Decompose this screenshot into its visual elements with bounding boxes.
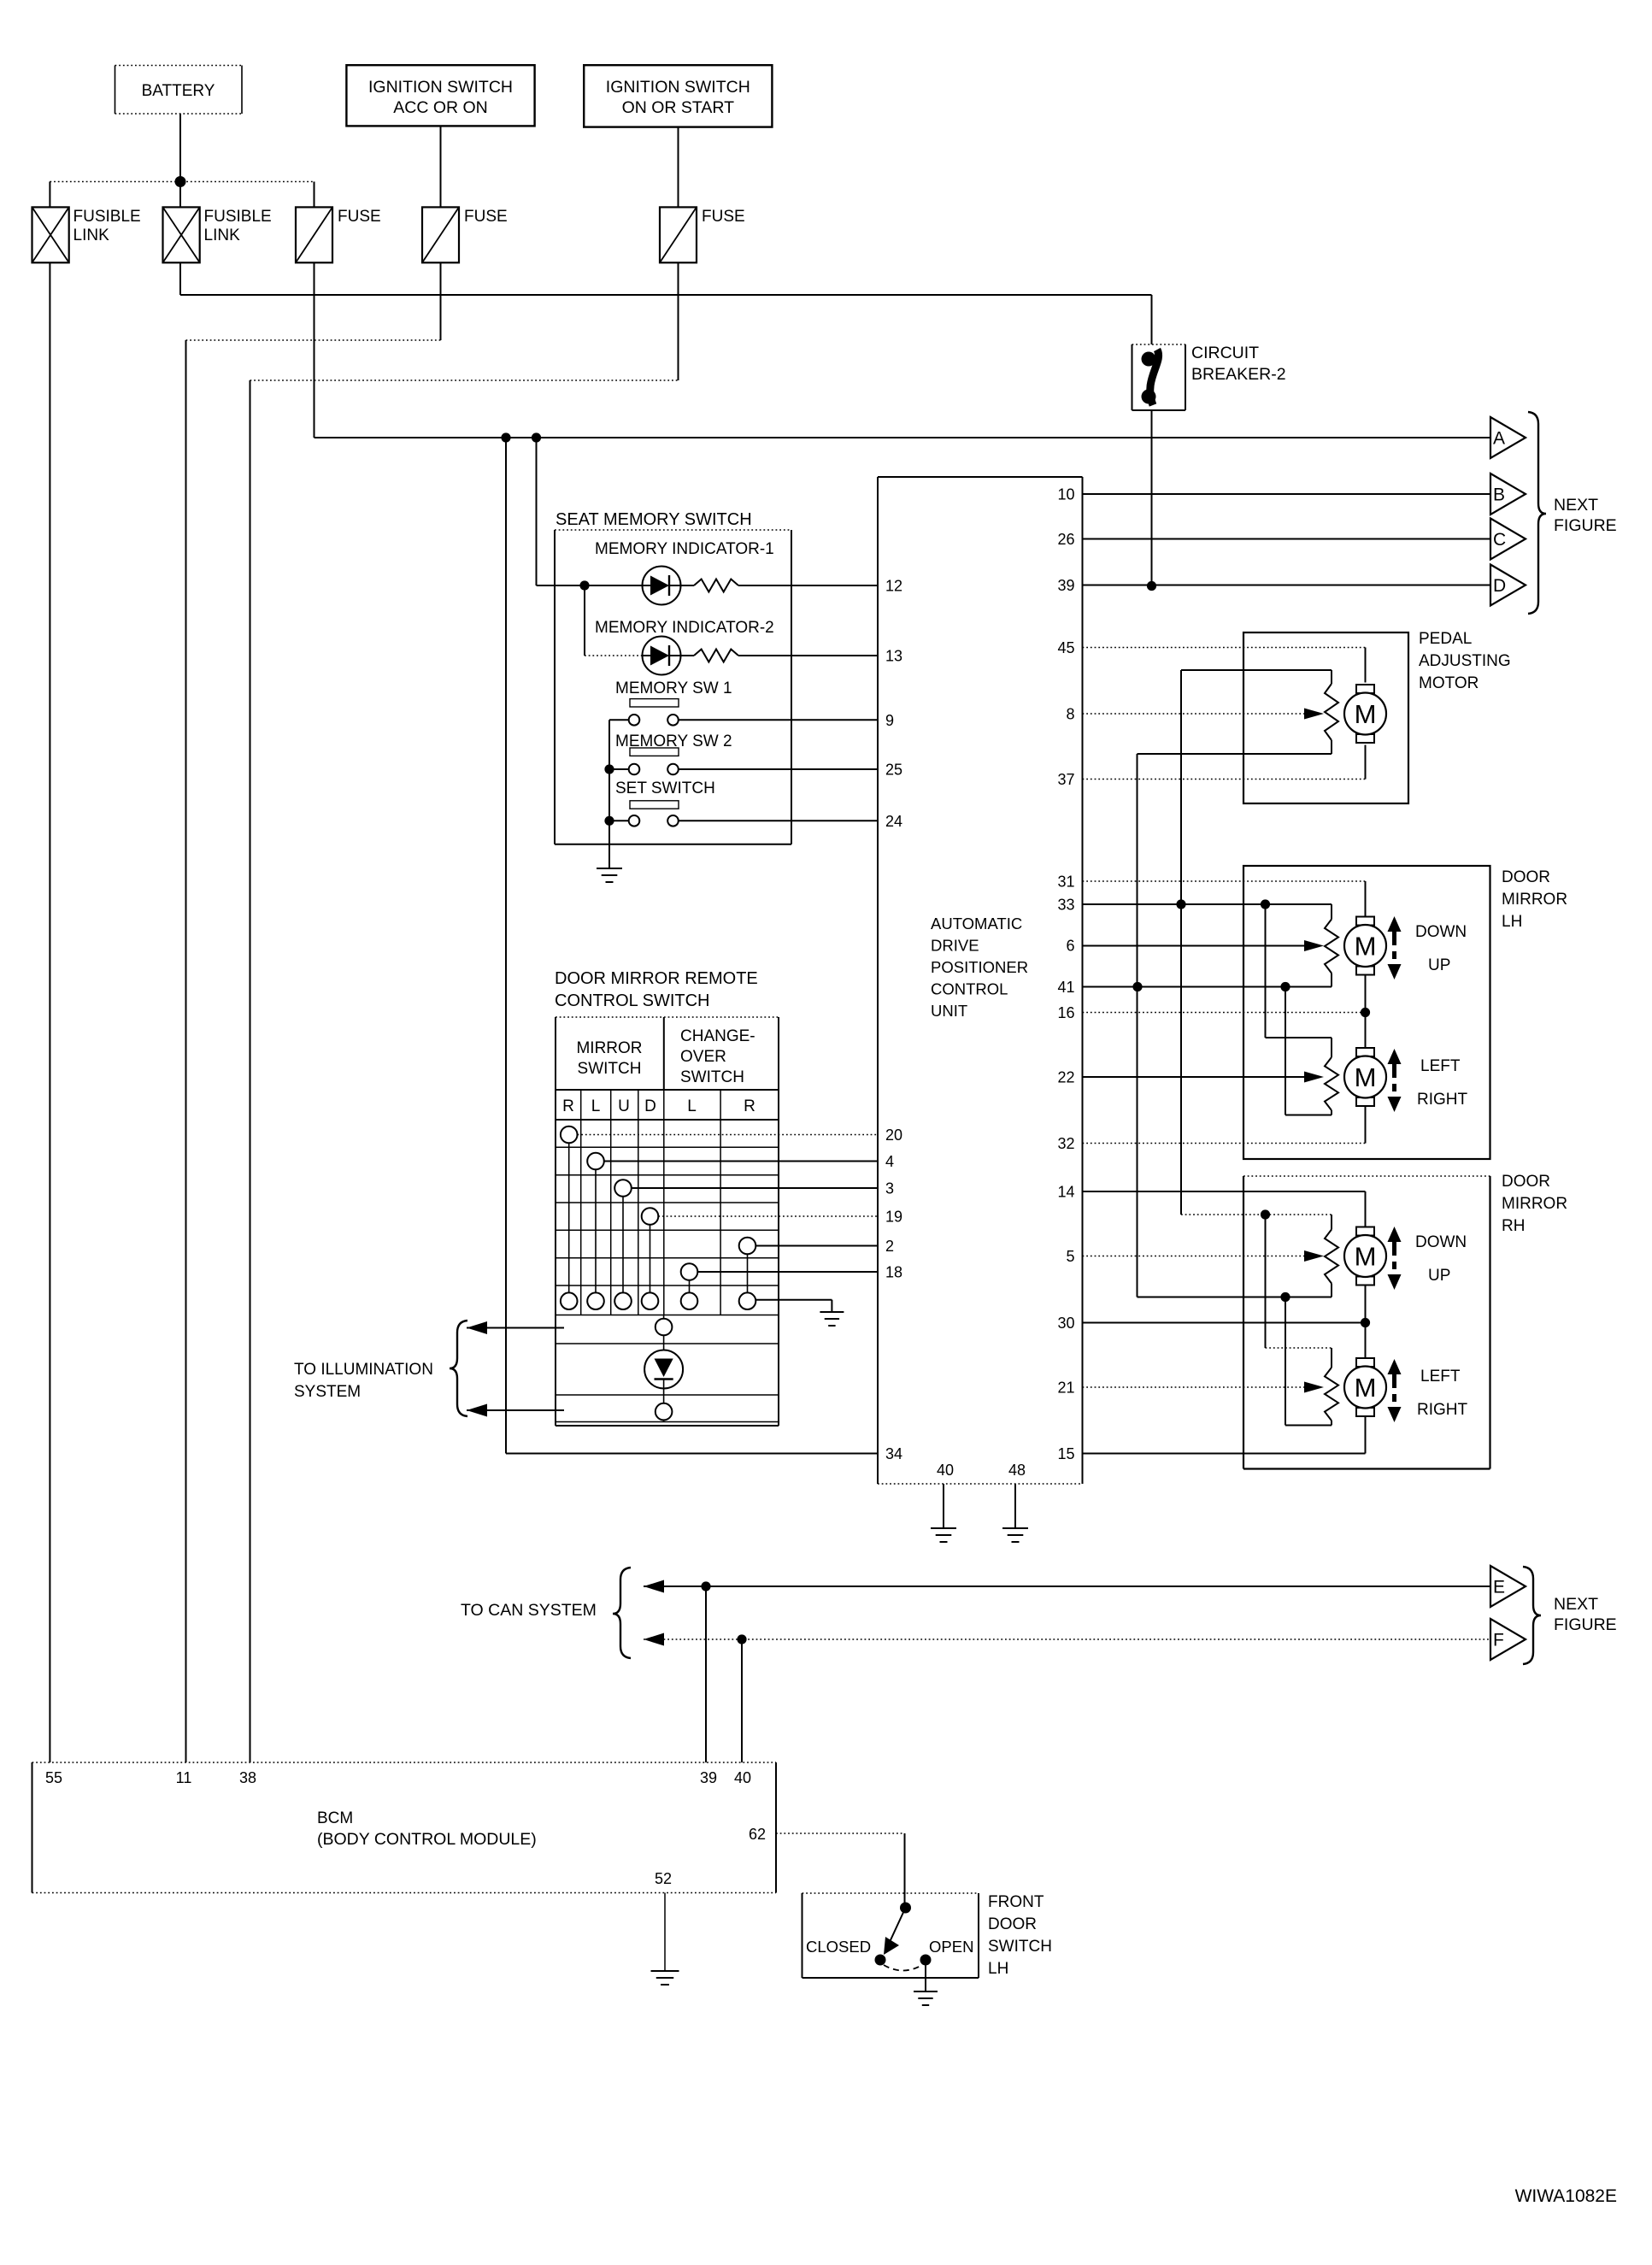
svg-text:FUSIBLE: FUSIBLE <box>73 208 141 226</box>
svg-text:16: 16 <box>1057 1004 1074 1021</box>
svg-text:IGNITION SWITCH: IGNITION SWITCH <box>606 78 750 97</box>
svg-text:FUSIBLE: FUSIBLE <box>204 208 272 226</box>
door switch OPEN contact <box>920 1955 932 1966</box>
wire contact 20 to ADP (dotted) <box>578 1134 879 1136</box>
resistor R1 <box>681 585 695 586</box>
contact bottom common <box>587 1292 604 1309</box>
illumination bottom contact <box>656 1403 673 1421</box>
svg-text:26: 26 <box>1057 531 1074 548</box>
wire ADP pin 39 to D <box>1083 585 1491 586</box>
door switch CLOSED contact <box>875 1955 886 1966</box>
svg-text:OVER: OVER <box>680 1048 726 1066</box>
wire LH UD motor top <box>1365 881 1367 917</box>
wire ADP pin 33 <box>1083 903 1332 905</box>
svg-text:(BODY CONTROL MODULE): (BODY CONTROL MODULE) <box>317 1830 537 1849</box>
resistor pedal position sensor <box>1325 684 1338 740</box>
ground BCM pin 52 <box>651 1970 679 1972</box>
svg-text:3: 3 <box>885 1180 894 1197</box>
brace to CAN <box>613 1568 631 1658</box>
wire IGN ACC to fuse F2 <box>440 126 442 207</box>
wire ACC to BCM pin 11 <box>185 340 187 1762</box>
arrow RH mirror up-down <box>1388 1227 1402 1242</box>
svg-text:TO ILLUMINATION: TO ILLUMINATION <box>294 1361 433 1379</box>
svg-text:32: 32 <box>1057 1135 1074 1152</box>
wire pedal low vertical <box>1137 754 1138 1297</box>
svg-text:NEXT: NEXT <box>1554 496 1598 515</box>
wire pin62 to door switch <box>904 1833 906 1908</box>
arrow to illumination 2 <box>467 1404 487 1417</box>
memory switch 1 contacts <box>629 715 640 726</box>
connector triangle A <box>1490 417 1526 458</box>
arrow RH UD wiper <box>1304 1250 1324 1262</box>
svg-text:CONTROL SWITCH: CONTROL SWITCH <box>555 991 709 1010</box>
svg-text:DOWN: DOWN <box>1415 1233 1467 1251</box>
door switch arm arrowhead <box>884 1937 899 1955</box>
contact bottom common <box>561 1292 578 1309</box>
arrow LH UD wiper <box>1304 940 1324 951</box>
wire ADP pin 31 (dotted) <box>1083 880 1366 882</box>
svg-text:FUSE: FUSE <box>702 208 745 226</box>
svg-text:RIGHT: RIGHT <box>1417 1401 1468 1419</box>
wire LH LR top feed <box>1265 904 1267 1038</box>
svg-text:62: 62 <box>749 1826 766 1843</box>
wire ADP pin 5 wiper (dotted) <box>1083 1256 1305 1257</box>
svg-text:D: D <box>1493 576 1506 596</box>
svg-text:19: 19 <box>885 1209 902 1226</box>
svg-text:18: 18 <box>885 1264 902 1281</box>
svg-text:M: M <box>1355 1242 1377 1272</box>
svg-text:39: 39 <box>700 1769 717 1786</box>
junction net A / seat memory feed <box>501 432 510 442</box>
fuse F2 <box>422 207 459 262</box>
wire LH LR motor top <box>1365 1013 1367 1049</box>
junction pin41 / pedal low <box>1132 982 1142 991</box>
grid column lines <box>580 1090 582 1315</box>
svg-text:M: M <box>1355 1062 1377 1092</box>
wire pedal motor bottom <box>1365 745 1367 780</box>
svg-text:M: M <box>1355 932 1377 962</box>
svg-text:PEDAL: PEDAL <box>1419 630 1472 648</box>
wire ADP pin 16 (dotted) <box>1083 1012 1366 1014</box>
wire fuse F2 down <box>440 262 442 340</box>
wire LH LR bottom feed <box>1331 1110 1332 1115</box>
svg-text:38: 38 <box>239 1769 256 1786</box>
contact R mirror-switch contact (pin20) <box>561 1127 578 1144</box>
wire indicator-2 feed <box>584 585 585 656</box>
svg-text:48: 48 <box>1008 1462 1026 1479</box>
wire RH LR motor top <box>1365 1323 1367 1359</box>
wire RH bottom feed <box>1138 1297 1332 1298</box>
wire pedal resistor top feed <box>1181 669 1332 671</box>
wire BCM pin 62 (dotted) <box>776 1833 905 1834</box>
junction pin41 / LH LR low <box>1280 982 1290 991</box>
svg-text:F: F <box>1493 1631 1504 1650</box>
svg-text:10: 10 <box>1057 486 1074 503</box>
svg-text:ACC OR ON: ACC OR ON <box>393 98 488 117</box>
wire BCM pin 52 to ground <box>664 1893 666 1972</box>
svg-text:OPEN: OPEN <box>929 1938 973 1956</box>
svg-text:8: 8 <box>1066 706 1074 723</box>
door switch arm <box>890 1908 906 1942</box>
svg-text:DOOR: DOOR <box>1502 1173 1550 1191</box>
wire OPEN contact to ground <box>925 1966 926 1992</box>
contact bottom common <box>642 1292 659 1309</box>
svg-text:D: D <box>644 1097 656 1115</box>
svg-text:MIRROR: MIRROR <box>576 1039 642 1057</box>
wire contact 4 to ADP <box>604 1161 878 1162</box>
wire ADP pin 15 <box>1083 1453 1366 1455</box>
svg-text:U: U <box>618 1097 630 1115</box>
arrow CAN-L <box>644 1633 664 1646</box>
svg-text:CLOSED: CLOSED <box>806 1938 871 1956</box>
fusible link FL1 <box>32 207 69 262</box>
stem D mirror-switch contact (pin19) <box>650 1225 651 1293</box>
svg-text:UP: UP <box>1428 956 1450 974</box>
fusible link FL2 <box>163 207 200 262</box>
svg-text:SET SWITCH: SET SWITCH <box>615 780 715 797</box>
arrow to illumination 1 <box>467 1321 487 1334</box>
brace next figure top <box>1528 412 1546 614</box>
header bottom line <box>556 1089 779 1091</box>
wire memory SW1 to ADP pin 9 <box>679 719 878 721</box>
door switch common contact <box>900 1903 911 1914</box>
svg-text:IGNITION SWITCH: IGNITION SWITCH <box>368 78 513 97</box>
svg-text:31: 31 <box>1057 874 1074 891</box>
junction RH top feed <box>1261 1209 1270 1219</box>
svg-text:FUSE: FUSE <box>338 208 381 226</box>
svg-text:DOOR: DOOR <box>1502 868 1550 886</box>
wire FL2 down <box>179 262 181 295</box>
motor M2 LH up-down <box>1356 917 1374 926</box>
wire net A to indicators <box>536 438 538 585</box>
svg-text:SWITCH: SWITCH <box>578 1060 642 1078</box>
illumination lamp wire upper <box>663 1335 665 1350</box>
junction switch common 1 <box>604 764 614 774</box>
wire LH UD motor bottom <box>1365 974 1367 1013</box>
svg-text:SWITCH: SWITCH <box>680 1068 744 1086</box>
svg-text:33: 33 <box>1057 897 1074 914</box>
svg-text:24: 24 <box>885 813 902 830</box>
wire fuse F1 down <box>314 262 315 438</box>
ground seat memory switch <box>597 868 622 869</box>
wire pedal resistor bottom feed <box>1331 740 1332 754</box>
junction battery bus <box>175 176 186 187</box>
svg-text:TO CAN SYSTEM: TO CAN SYSTEM <box>461 1601 597 1620</box>
wire RH feed vertical <box>1180 904 1182 1215</box>
wire R1 to ADP pin 12 <box>738 585 878 586</box>
wire memory SW2 to common <box>609 768 629 770</box>
svg-text:WIWA1082E: WIWA1082E <box>1515 2186 1617 2206</box>
memory switch 1 plate <box>630 699 679 707</box>
svg-text:C: C <box>1493 530 1506 550</box>
svg-text:11: 11 <box>176 1769 192 1786</box>
illumination row line 2 <box>556 1343 779 1344</box>
svg-text:BREAKER-2: BREAKER-2 <box>1191 365 1286 384</box>
svg-text:LEFT: LEFT <box>1420 1057 1461 1075</box>
pedal adjusting motor box <box>1243 632 1408 803</box>
svg-text:DOWN: DOWN <box>1415 923 1467 941</box>
arrow LH mirror up-down <box>1388 916 1402 932</box>
wire ADP pin 8 wiper (dotted) <box>1083 713 1305 715</box>
wire battery to bus <box>179 114 181 182</box>
wire RH LR motor bottom <box>1365 1416 1367 1454</box>
wire bus to fusible link 2 <box>179 182 181 208</box>
arrow LH LR wiper <box>1304 1072 1324 1083</box>
svg-text:UP: UP <box>1428 1267 1450 1285</box>
resistor LH mirror UD sensor <box>1325 920 1338 974</box>
svg-text:FRONT: FRONT <box>988 1893 1044 1911</box>
wire CAN-H to E <box>644 1585 1490 1587</box>
svg-text:CIRCUIT: CIRCUIT <box>1191 344 1259 362</box>
arrow pedal wiper <box>1304 709 1324 720</box>
wire indicator-1 feed <box>537 585 643 586</box>
wire ADP pin 40 to ground <box>943 1484 944 1528</box>
svg-text:15: 15 <box>1057 1445 1074 1462</box>
wire ACC dotted horizontal <box>186 339 441 341</box>
svg-text:AUTOMATIC: AUTOMATIC <box>931 915 1022 932</box>
front door switch SW3 box <box>802 1892 979 1894</box>
svg-text:DOOR: DOOR <box>988 1915 1037 1933</box>
motor M5 RH left-right <box>1356 1358 1374 1367</box>
svg-text:MIRROR: MIRROR <box>1502 1195 1567 1213</box>
junction node D / CB-2 <box>1147 581 1156 591</box>
wire net A horizontal <box>315 437 1491 438</box>
set switch plate <box>630 801 679 809</box>
svg-text:SYSTEM: SYSTEM <box>294 1383 361 1401</box>
connector triangle C <box>1490 519 1526 560</box>
svg-text:20: 20 <box>885 1127 902 1144</box>
svg-text:14: 14 <box>1057 1184 1074 1201</box>
door switch travel arc (dashed) <box>884 1965 922 1971</box>
wire CB-2 to node D <box>1151 410 1153 586</box>
svg-text:BATTERY: BATTERY <box>142 82 215 100</box>
svg-text:FIGURE: FIGURE <box>1554 516 1617 535</box>
wire switch common to ground <box>755 1299 832 1301</box>
svg-text:POSITIONER: POSITIONER <box>931 958 1028 976</box>
contact bottom common <box>739 1292 756 1309</box>
arrow CAN-H <box>644 1580 664 1593</box>
wire switch common to ground <box>608 720 610 868</box>
svg-text:A: A <box>1493 429 1505 449</box>
arrow LH mirror left-right <box>1388 1049 1402 1064</box>
resistor R2 <box>681 655 695 656</box>
wire ADP pin 14 <box>1083 1191 1366 1192</box>
svg-text:6: 6 <box>1066 938 1074 955</box>
ground door mirror switch <box>820 1311 844 1313</box>
resistor RH mirror LR sensor <box>1325 1368 1338 1421</box>
wire ADP pin 45 (dotted) <box>1083 647 1366 649</box>
wire IGN START to fuse F3 <box>678 127 679 208</box>
wire IGN to BCM pin 38 <box>250 380 251 1762</box>
letters row line <box>556 1119 779 1121</box>
wire CAN-L to F (dotted) <box>644 1638 1490 1640</box>
memory switch 2 contacts <box>629 764 640 775</box>
wire RH top feed (dotted) <box>1181 1214 1332 1215</box>
door mirror LH box <box>1243 866 1490 1159</box>
svg-text:41: 41 <box>1057 979 1074 996</box>
resistor RH mirror UD sensor <box>1325 1230 1338 1284</box>
junction RH motor common <box>1361 1318 1370 1327</box>
motor M3 LH left-right <box>1356 1048 1374 1056</box>
svg-text:MEMORY INDICATOR-2: MEMORY INDICATOR-2 <box>595 619 774 637</box>
junction indicator feed <box>579 580 589 590</box>
svg-text:4: 4 <box>885 1153 894 1170</box>
svg-text:22: 22 <box>1057 1069 1074 1086</box>
svg-text:FIGURE: FIGURE <box>1554 1615 1617 1634</box>
wire CAN-L to BCM pin 40 <box>741 1639 743 1762</box>
ground front door switch <box>914 1991 938 1992</box>
wire FL1 to BCM pin 55 <box>49 262 50 1762</box>
seat memory switch SW1 box <box>555 529 791 531</box>
svg-text:B: B <box>1493 485 1505 505</box>
svg-text:9: 9 <box>885 712 894 729</box>
svg-text:R: R <box>744 1097 755 1115</box>
contact U mirror-switch contact (pin3) <box>614 1180 632 1197</box>
stem R change-over contact (pin2) <box>747 1254 749 1292</box>
svg-text:M: M <box>1355 1373 1377 1403</box>
svg-text:45: 45 <box>1057 639 1074 656</box>
junction net A / indicator feed <box>532 432 541 442</box>
connector triangle E <box>1490 1566 1526 1607</box>
contact L mirror-switch contact (pin4) <box>587 1153 604 1170</box>
illumination lamp wire lower <box>663 1389 665 1403</box>
svg-text:DOOR MIRROR REMOTE: DOOR MIRROR REMOTE <box>555 969 758 988</box>
wire ADP pin 41 <box>1083 986 1332 988</box>
wire contact 2 to ADP <box>755 1245 878 1247</box>
svg-text:MEMORY INDICATOR-1: MEMORY INDICATOR-1 <box>595 540 774 558</box>
svg-text:21: 21 <box>1057 1380 1074 1397</box>
svg-text:UNIT: UNIT <box>931 1002 967 1020</box>
svg-text:40: 40 <box>734 1769 751 1786</box>
svg-text:52: 52 <box>655 1870 672 1887</box>
wire LH LR motor bottom <box>1365 1106 1367 1144</box>
stem U mirror-switch contact (pin3) <box>622 1197 624 1293</box>
battery B1 <box>115 65 243 67</box>
wire bus to fuse F1 <box>314 182 315 208</box>
junction RH bottom feed <box>1280 1292 1290 1302</box>
svg-text:MOTOR: MOTOR <box>1419 674 1479 692</box>
svg-text:2: 2 <box>885 1238 894 1255</box>
svg-text:SWITCH: SWITCH <box>988 1938 1052 1956</box>
svg-text:ADJUSTING: ADJUSTING <box>1419 652 1511 670</box>
wire ADP pin 26 to C <box>1083 538 1491 540</box>
wire contact 3 to ADP <box>632 1187 878 1189</box>
ignition switch ACC-or-ON <box>346 65 534 126</box>
svg-text:NEXT: NEXT <box>1554 1595 1598 1614</box>
ground ADP pin 40 <box>931 1527 956 1529</box>
svg-text:L: L <box>591 1097 601 1115</box>
wire RH LR top feed <box>1265 1215 1267 1348</box>
wire contact 18 to ADP <box>697 1271 878 1273</box>
illumination row line 3 <box>556 1394 779 1396</box>
contact D mirror-switch contact (pin19) <box>642 1208 659 1225</box>
svg-text:5: 5 <box>1066 1248 1074 1265</box>
svg-text:RIGHT: RIGHT <box>1417 1091 1468 1109</box>
door mirror RH box <box>1243 1175 1490 1177</box>
wire RH UD motor top <box>1365 1191 1367 1227</box>
wire ADP pin 30 <box>1083 1322 1366 1324</box>
svg-text:CHANGE-: CHANGE- <box>680 1027 755 1045</box>
wire ADP pin 32 (dotted) <box>1083 1143 1366 1144</box>
wire ADP pin 37 (dotted) <box>1083 779 1366 780</box>
motor M4 RH up-down <box>1356 1227 1374 1236</box>
arrow RH LR wiper <box>1304 1382 1324 1393</box>
junction pin33 / pedal feed <box>1176 899 1185 909</box>
svg-text:55: 55 <box>45 1769 62 1786</box>
svg-text:E: E <box>1493 1578 1505 1597</box>
svg-text:L: L <box>687 1097 697 1115</box>
wire ADP pin 6 wiper <box>1083 945 1305 947</box>
fuse F3 <box>660 207 697 262</box>
svg-text:BCM: BCM <box>317 1809 353 1827</box>
stem L mirror-switch contact (pin4) <box>595 1169 597 1292</box>
connector triangle D <box>1490 565 1526 606</box>
door mirror remote control switch SW2 box <box>556 1016 779 1018</box>
wire ADP pin 22 wiper <box>1083 1076 1305 1078</box>
wire battery feed horizontal <box>180 294 1152 296</box>
resistor LH mirror LR sensor <box>1325 1057 1338 1110</box>
svg-text:MIRROR: MIRROR <box>1502 891 1567 909</box>
junction pin33 / LH LR feed <box>1261 899 1270 909</box>
illumination top contact <box>656 1319 673 1336</box>
svg-text:RH: RH <box>1502 1217 1525 1235</box>
illumination row line 4 <box>556 1421 779 1423</box>
connector triangle F <box>1490 1619 1526 1660</box>
wire ADP pin 48 to ground <box>1014 1484 1016 1528</box>
svg-text:39: 39 <box>1057 577 1074 594</box>
svg-text:CONTROL: CONTROL <box>931 980 1008 998</box>
LED memory indicator-2 <box>643 637 681 675</box>
svg-text:LEFT: LEFT <box>1420 1368 1461 1385</box>
contact bottom common <box>614 1292 632 1309</box>
fuse F1 <box>296 207 332 262</box>
wire set switch to ADP pin 24 <box>679 820 878 821</box>
svg-text:DRIVE: DRIVE <box>931 937 979 955</box>
wire memory SW1 to common <box>609 719 629 721</box>
svg-text:LH: LH <box>1502 913 1522 931</box>
wire CAN-H to BCM pin 39 <box>705 1586 707 1762</box>
svg-text:34: 34 <box>885 1445 902 1462</box>
svg-text:R: R <box>562 1097 574 1115</box>
wire pedal feed vertical <box>1180 670 1182 904</box>
svg-text:12: 12 <box>885 578 902 595</box>
brace to illumination <box>450 1321 467 1416</box>
junction CAN-H / BCM 39 <box>701 1581 710 1591</box>
wire RH LR bottom feed <box>1331 1421 1332 1426</box>
wire bus to fusible link 1 <box>49 182 50 208</box>
brace next figure bottom <box>1523 1567 1541 1664</box>
wire to circuit breaker <box>1151 295 1153 344</box>
svg-text:37: 37 <box>1057 771 1074 788</box>
connector triangle B <box>1490 474 1526 515</box>
wire memory SW2 to ADP pin 25 <box>679 768 878 770</box>
ground ADP pin 48 <box>1002 1527 1028 1529</box>
wire RH UD motor bottom <box>1365 1285 1367 1323</box>
svg-text:30: 30 <box>1057 1315 1074 1332</box>
wire set switch to common <box>609 820 629 821</box>
ADP control unit U1 box <box>878 476 1083 478</box>
svg-text:LINK: LINK <box>73 226 110 244</box>
wire battery bus (dotted) <box>50 181 314 183</box>
junction switch common 2 <box>604 816 614 826</box>
wire to ADP pin 34 horizontal <box>506 1453 878 1455</box>
LED memory indicator-1 <box>643 567 681 605</box>
svg-text:13: 13 <box>885 648 902 665</box>
svg-text:M: M <box>1355 699 1377 729</box>
wire ADP pin 21 wiper (dotted) <box>1083 1386 1305 1388</box>
BCM box <box>32 1762 777 1763</box>
stem R mirror-switch contact (pin20) <box>568 1143 570 1292</box>
